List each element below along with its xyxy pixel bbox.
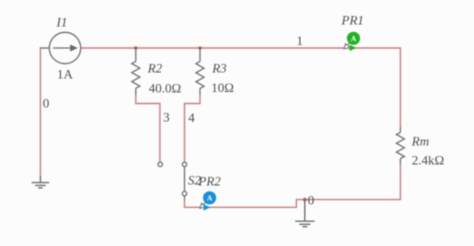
svg-text:1A: 1A — [57, 67, 74, 82]
svg-text:40.0Ω: 40.0Ω — [149, 80, 181, 95]
resistor R2 — [132, 48, 140, 95]
open terminal (node 3 end) — [158, 162, 162, 166]
svg-text:R2: R2 — [147, 61, 163, 76]
wire: switch bottom lead drop — [184, 199, 186, 208]
svg-text:10Ω: 10Ω — [211, 80, 234, 95]
svg-text:0: 0 — [308, 193, 315, 208]
svg-text:Rm: Rm — [411, 134, 429, 149]
wire: bottom right horizontal net 0 — [184, 200, 401, 208]
svg-text:PR2: PR2 — [197, 174, 221, 189]
wire: right vertical upper (node 1 to Rm) — [399, 47, 401, 126]
junction dot node 1 at R3 — [198, 46, 202, 50]
svg-text:4: 4 — [188, 110, 195, 125]
svg-text:3: 3 — [163, 110, 170, 125]
svg-text:1: 1 — [296, 33, 303, 48]
svg-text:I1: I1 — [56, 14, 68, 29]
wire: top horizontal net 1 — [81, 47, 401, 49]
svg-text:0: 0 — [43, 96, 50, 111]
wire: left vertical to ground — [39, 47, 41, 175]
resistor R3 — [196, 48, 204, 95]
svg-text:PR1: PR1 — [341, 13, 364, 28]
switch S2 — [182, 162, 186, 199]
resistor Rm — [396, 127, 404, 165]
ground (left) — [32, 175, 49, 187]
svg-text:R3: R3 — [211, 61, 227, 76]
ground (right) — [295, 200, 314, 227]
svg-text:A: A — [207, 194, 213, 203]
wire: R3 branch to node 4 — [185, 95, 201, 162]
junction dot node 1 at R2 — [134, 46, 138, 50]
junction dot node 0 — [303, 198, 307, 202]
svg-text:2.4kΩ: 2.4kΩ — [412, 153, 444, 168]
wire: R2 branch to node 3 — [136, 95, 160, 162]
probe PR2 — [200, 191, 216, 210]
wire: right vertical lower (Rm to bottom) — [399, 165, 401, 200]
current source I1 — [40, 32, 80, 63]
probe PR1 — [344, 32, 360, 51]
svg-text:A: A — [351, 34, 357, 43]
